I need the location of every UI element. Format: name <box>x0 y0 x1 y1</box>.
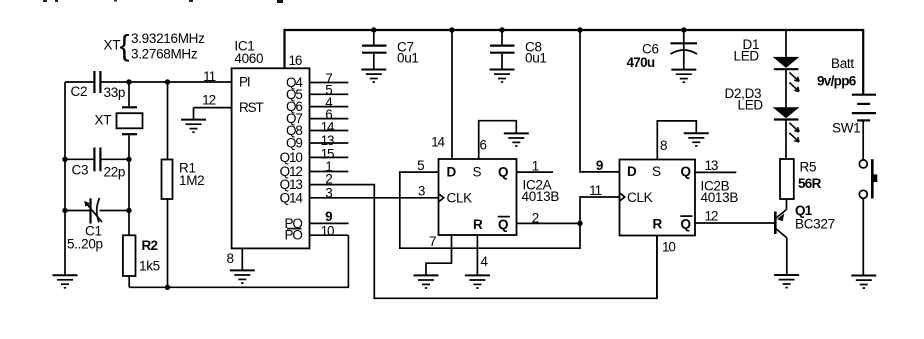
svg-text:CLK: CLK <box>447 191 473 206</box>
svg-text:470u: 470u <box>627 55 655 70</box>
svg-text:Q: Q <box>498 217 508 232</box>
svg-text:13: 13 <box>705 158 718 173</box>
svg-text:12: 12 <box>705 209 718 224</box>
svg-text:4013B: 4013B <box>701 190 739 205</box>
svg-text:LED: LED <box>738 98 764 113</box>
svg-text:9: 9 <box>596 158 603 173</box>
svg-text:PI: PI <box>239 75 250 90</box>
svg-text:56R: 56R <box>798 176 822 191</box>
svg-text:4013B: 4013B <box>522 189 560 204</box>
svg-text:Q10: Q10 <box>280 150 303 165</box>
svg-text:11: 11 <box>203 69 215 84</box>
svg-text:5: 5 <box>417 158 424 173</box>
svg-text:1k5: 1k5 <box>139 258 160 273</box>
svg-text:XT: XT <box>104 38 121 53</box>
svg-text:S: S <box>473 165 482 180</box>
svg-text:0u1: 0u1 <box>397 50 419 65</box>
svg-text:RST: RST <box>239 100 264 115</box>
svg-text:Q: Q <box>681 164 691 179</box>
svg-text:BC327: BC327 <box>795 217 835 232</box>
svg-text:CLK: CLK <box>627 190 653 205</box>
svg-text:4060: 4060 <box>234 51 263 66</box>
svg-text:Q14: Q14 <box>280 190 304 205</box>
svg-text:D: D <box>447 165 457 180</box>
svg-text:4: 4 <box>481 254 489 269</box>
svg-text:0u1: 0u1 <box>525 50 547 65</box>
svg-text:R5: R5 <box>800 160 817 175</box>
svg-text:Batt: Batt <box>831 56 854 71</box>
svg-text:XT: XT <box>95 113 112 128</box>
svg-text:1: 1 <box>532 158 539 173</box>
svg-text:3.93216MHz: 3.93216MHz <box>131 31 205 46</box>
svg-text:7: 7 <box>429 234 436 249</box>
svg-text:1M2: 1M2 <box>179 173 204 188</box>
svg-text:16: 16 <box>289 53 302 68</box>
svg-text:2: 2 <box>325 172 332 187</box>
svg-text:Q: Q <box>681 217 691 232</box>
svg-text:33p: 33p <box>104 85 126 100</box>
svg-text:2: 2 <box>532 210 539 225</box>
svg-text:PO: PO <box>284 228 302 243</box>
svg-text:SW1: SW1 <box>832 121 860 136</box>
svg-text:{: { <box>120 30 130 63</box>
svg-text:R: R <box>473 217 483 232</box>
svg-text:D: D <box>627 164 637 179</box>
svg-text:Q9: Q9 <box>286 136 302 151</box>
svg-text:10: 10 <box>662 239 675 254</box>
svg-text:12: 12 <box>202 93 215 108</box>
svg-text:3: 3 <box>418 184 425 199</box>
svg-text:LED: LED <box>734 49 760 64</box>
svg-text:14: 14 <box>431 135 445 150</box>
svg-text:C3: C3 <box>72 163 89 178</box>
svg-text:S: S <box>652 164 661 179</box>
svg-text:9v/pp6: 9v/pp6 <box>817 74 857 89</box>
svg-text:6: 6 <box>480 138 487 153</box>
svg-text:C2: C2 <box>71 84 88 99</box>
svg-text:R2: R2 <box>142 238 158 253</box>
svg-text:3.2768MHz: 3.2768MHz <box>131 47 198 62</box>
svg-text:10: 10 <box>321 224 334 239</box>
svg-text:5..20p: 5..20p <box>67 237 103 252</box>
svg-text:22p: 22p <box>104 165 126 180</box>
svg-text:3: 3 <box>325 186 332 201</box>
svg-text:9: 9 <box>325 209 332 224</box>
svg-text:Q: Q <box>498 165 508 180</box>
svg-text:8: 8 <box>227 251 234 266</box>
svg-text:11: 11 <box>589 183 601 198</box>
svg-text:8: 8 <box>660 138 667 153</box>
svg-text:R: R <box>653 217 663 232</box>
